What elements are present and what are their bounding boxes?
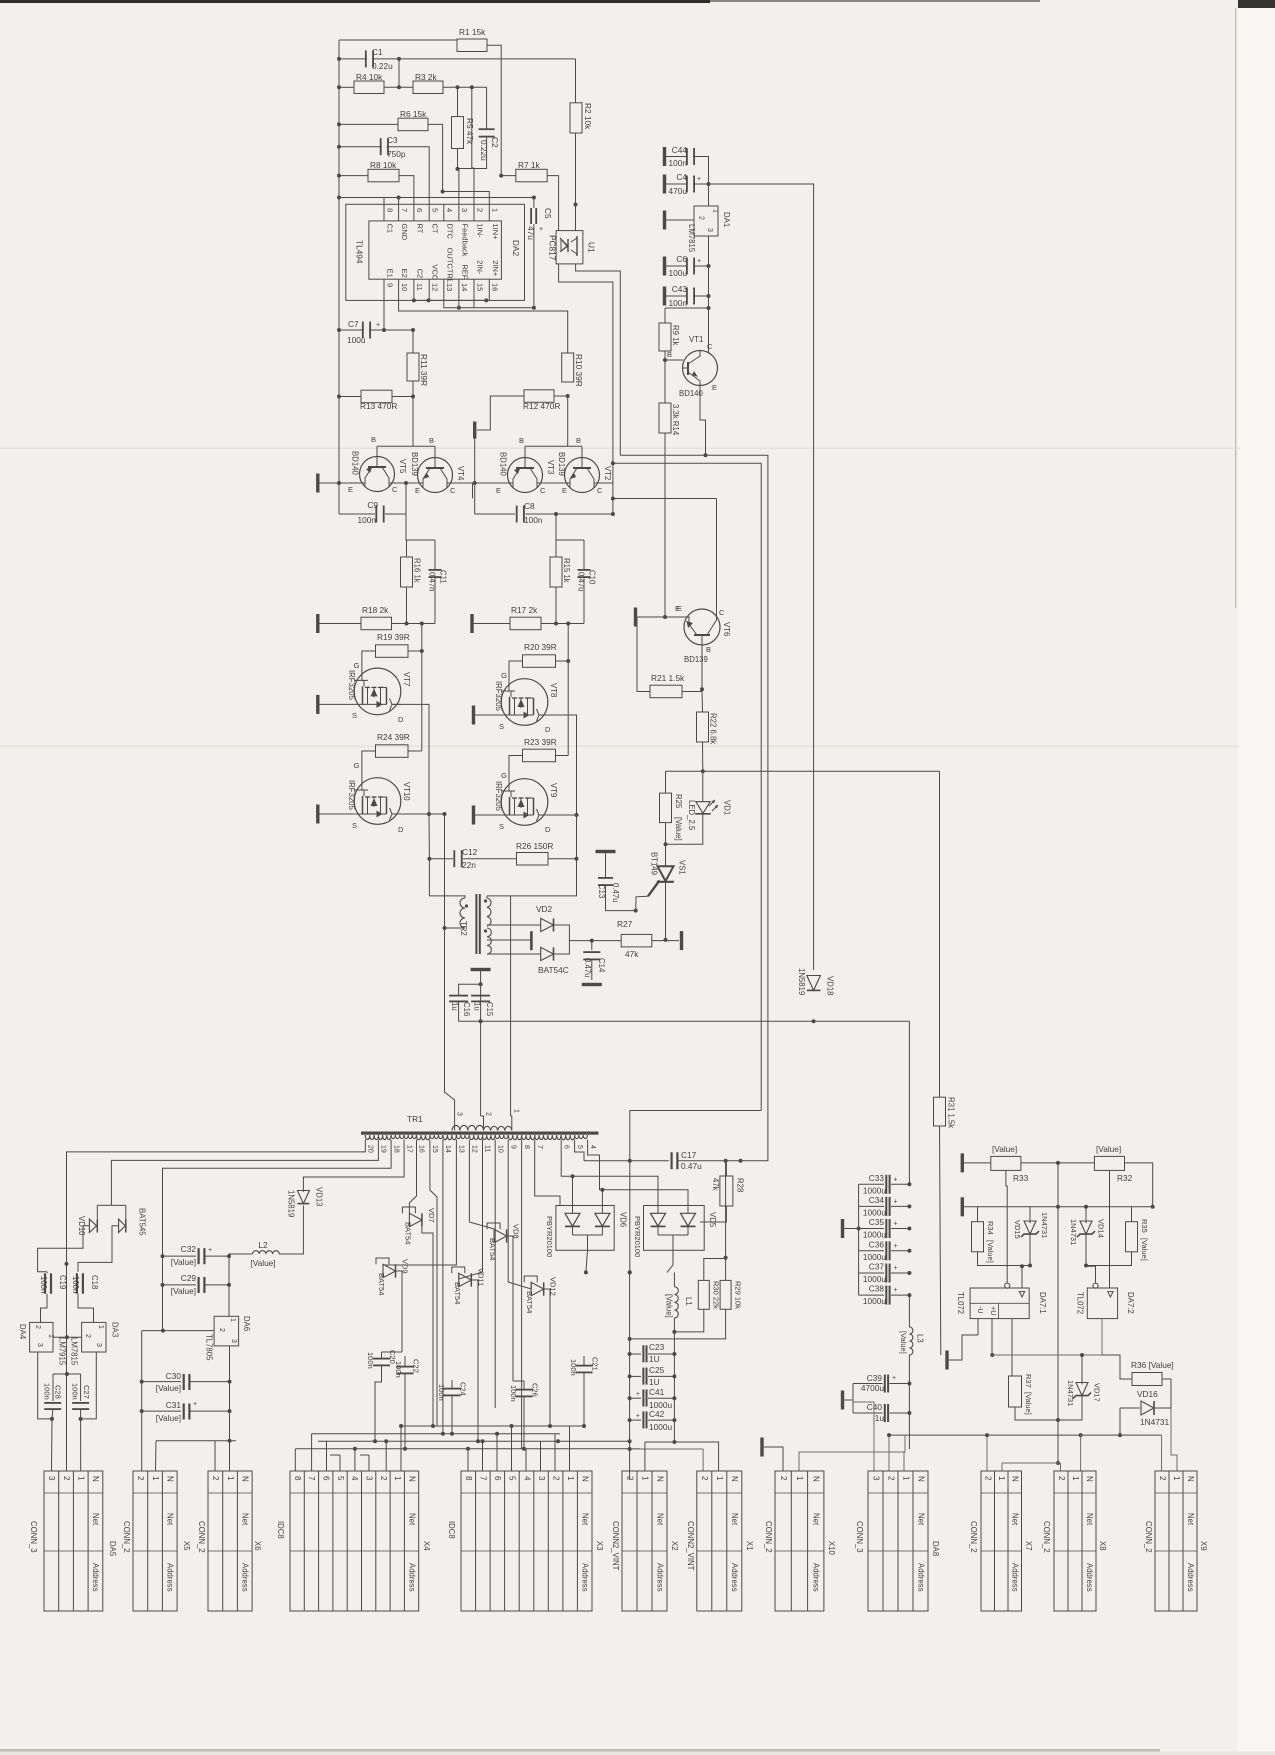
zener VD15 1N4731 (1029, 1207, 1031, 1223)
wire C18 bottom (78, 1294, 94, 1323)
wire DA6 left rail (141, 1331, 143, 1471)
node C32 right (227, 1254, 231, 1258)
capacitor C44 (666, 156, 687, 158)
transistor VT6 BD139 (684, 609, 720, 645)
ground row2 (961, 1197, 964, 1216)
svg-text:C33: C33 (869, 1173, 885, 1183)
svg-text:N: N (916, 1476, 925, 1482)
svg-text:C18: C18 (90, 1275, 99, 1289)
TR1 pin 7 (534, 1140, 536, 1144)
svg-text:Net: Net (730, 1513, 739, 1526)
wire pin13 drop (383, 1143, 456, 1271)
svg-text:VS1: VS1 (678, 860, 687, 875)
wire TR1 pin2 drop (480, 1021, 482, 1116)
wire X5-X6 link (156, 1440, 236, 1442)
svg-text:VD14: VD14 (1097, 1219, 1106, 1238)
resistor R2 (570, 103, 582, 133)
TR1 pin 5 (574, 1140, 576, 1144)
svg-text:B: B (667, 350, 672, 359)
wire R6 row (339, 123, 398, 125)
svg-text:Net: Net (655, 1513, 664, 1526)
svg-text:5: 5 (576, 1145, 583, 1149)
resistor R4 (354, 81, 384, 94)
svg-text:E: E (712, 383, 717, 392)
svg-text:C26: C26 (531, 1383, 540, 1397)
wire R31 bottom (940, 1126, 941, 1355)
svg-text:R29 10k: R29 10k (734, 1281, 743, 1309)
connector X5 CONN_2 (133, 1471, 177, 1611)
svg-text:VT4: VT4 (456, 466, 465, 481)
svg-text:1N4731: 1N4731 (1040, 1212, 1049, 1238)
pin 6 (RT) (413, 204, 415, 221)
svg-text:C5: C5 (543, 208, 553, 219)
resistor R8 (368, 169, 399, 182)
capacitor C32 (163, 1255, 197, 1257)
svg-text:R5 47k: R5 47k (465, 118, 475, 145)
svg-text:1: 1 (715, 1476, 724, 1481)
wire VD6 out (584, 1270, 588, 1274)
svg-text:2: 2 (779, 1476, 788, 1481)
wire R9 top (665, 307, 709, 309)
pin 12 (VCC) (428, 279, 430, 300)
svg-text:DA5: DA5 (108, 1541, 117, 1557)
svg-text:C27: C27 (82, 1385, 91, 1399)
svg-text:IRF3205: IRF3205 (347, 670, 356, 701)
capacitor C33 1000u (859, 1183, 884, 1185)
wire R18 right (392, 623, 436, 625)
svg-text:E: E (496, 486, 501, 495)
svg-text:X1: X1 (745, 1541, 754, 1551)
svg-text:C: C (719, 608, 725, 617)
wire R12 left (477, 396, 524, 430)
resistor R12 (524, 390, 554, 403)
capacitor C29 (163, 1284, 197, 1286)
svg-text:2: 2 (379, 1476, 388, 1481)
svg-text:1: 1 (47, 1334, 54, 1338)
wire base drop right pair (567, 396, 569, 446)
diode VD16 1N4731 (1120, 1407, 1140, 1409)
wire bank rail down (908, 1295, 910, 1327)
wire R27 right (652, 940, 679, 942)
wire L1 bottom (673, 1318, 675, 1354)
ground VT5 emitter (316, 474, 319, 493)
svg-text:C29: C29 (181, 1273, 197, 1283)
svg-text:E: E (415, 486, 420, 495)
wire R33 left (964, 1162, 991, 1164)
wire R20 left / VT8 gate (509, 661, 523, 691)
svg-text:8: 8 (385, 208, 394, 212)
pin 14 (REF) (458, 279, 460, 300)
svg-text:R26 150R: R26 150R (516, 841, 553, 851)
wire pin6 drop (561, 1143, 572, 1176)
svg-text:C: C (597, 486, 603, 495)
svg-text:R9 1k: R9 1k (671, 325, 680, 345)
wire R34 bottom (978, 1252, 1031, 1266)
svg-text:100n: 100n (394, 1361, 403, 1378)
wire pin5 drop (575, 1143, 584, 1161)
svg-text:Net: Net (407, 1513, 416, 1526)
capacitor C38 1000u (859, 1294, 884, 1296)
resistor R36 (1132, 1373, 1162, 1386)
wire VT1 emitter down (700, 385, 706, 455)
node R1-R7 (499, 174, 503, 178)
svg-text:C42: C42 (649, 1409, 665, 1419)
op-amp U? outer box DA2 (346, 204, 525, 300)
svg-text:Net: Net (916, 1513, 925, 1526)
svg-text:0.47u: 0.47u (611, 883, 620, 903)
resistor R34 (972, 1222, 984, 1252)
wire VT10 drain (392, 813, 445, 815)
svg-text:VT6: VT6 (722, 622, 731, 636)
wire X2 pins (629, 1470, 631, 1472)
wire R35 top (1131, 1207, 1133, 1222)
wire pin10 drop (494, 1143, 496, 1408)
svg-text:N: N (1085, 1476, 1094, 1482)
wire R11 top (412, 330, 414, 353)
svg-text:10: 10 (496, 1145, 503, 1153)
svg-text:Net: Net (91, 1513, 100, 1526)
svg-text:C14: C14 (597, 958, 606, 973)
wire bus B down to rect (630, 1111, 761, 1273)
wire secondary common bus (511, 1020, 910, 1022)
node R25-LED (664, 842, 668, 846)
svg-text:1: 1 (1172, 1476, 1181, 1481)
resistor R9 (659, 323, 671, 351)
svg-text:100u: 100u (669, 268, 688, 278)
svg-text:CONN_2: CONN_2 (764, 1521, 773, 1553)
wire R18 left (320, 623, 362, 625)
svg-text:R10 39R: R10 39R (574, 354, 584, 387)
wire R14 top (664, 360, 666, 403)
node C39 (907, 1382, 911, 1386)
node C7 right (382, 328, 386, 332)
capacitor C40 (853, 1412, 883, 1414)
connector X8 CONN_2 (1054, 1471, 1096, 1611)
svg-text:C32: C32 (181, 1244, 197, 1254)
node VD18 bottom (812, 1019, 816, 1023)
wire C12-R26 (463, 858, 517, 860)
bottom right bus (889, 1434, 1161, 1436)
TR1 pin 15 (429, 1140, 431, 1144)
resistor R5 (452, 117, 464, 149)
svg-text:6: 6 (493, 1476, 502, 1481)
wire DA6 pin2 row (142, 1330, 214, 1332)
wire R16 bottom (406, 587, 408, 624)
svg-text:R32: R32 (1117, 1173, 1133, 1183)
resistor R32 (1094, 1156, 1124, 1170)
wire VT7 source (320, 703, 355, 705)
wire R2 bottom to U1 (575, 133, 577, 231)
capacitor C19 (46, 1272, 48, 1274)
svg-text:N: N (166, 1476, 175, 1482)
svg-text:R8 10k: R8 10k (370, 160, 397, 170)
svg-text:IRF3205: IRF3205 (494, 781, 503, 812)
ground DA1 pin2 (663, 211, 666, 230)
wire R11 bottom (412, 381, 414, 397)
svg-text:1: 1 (97, 1325, 104, 1329)
svg-text:IRF3205: IRF3205 (494, 681, 503, 712)
ground C15 top (471, 968, 491, 971)
wire R34 top (977, 1207, 979, 1222)
wire VD9 out (396, 1271, 403, 1352)
wire TR2 right drop (487, 859, 577, 896)
svg-text:N: N (655, 1476, 664, 1482)
wire VD11 out (471, 1280, 478, 1441)
svg-text:+: + (697, 258, 701, 265)
svg-text:1: 1 (795, 1476, 804, 1481)
svg-text:C4: C4 (676, 172, 687, 182)
wire GND row to U1 (339, 197, 534, 199)
svg-text:RT: RT (415, 224, 424, 234)
TR1 pin 1 (511, 1124, 513, 1131)
wire DA4 pin3 out (38, 1352, 52, 1419)
svg-text:[Value]: [Value] (250, 1258, 275, 1268)
wire C3 row (339, 146, 382, 148)
wire R2 drop (575, 59, 577, 103)
wire X9 feeds (1161, 1435, 1163, 1471)
wire R30 bottom (674, 1309, 703, 1332)
svg-text:2: 2 (211, 1476, 220, 1481)
svg-text:Address: Address (166, 1563, 175, 1592)
pin 11 (C2) (413, 279, 415, 300)
wire R28 bottom (700, 1206, 726, 1222)
capacitor C17 (584, 1160, 669, 1162)
wire R33 right (1021, 1162, 1095, 1164)
svg-text:2: 2 (62, 1476, 71, 1481)
TR2 secondary winding bottom (487, 928, 491, 954)
svg-text:Address: Address (1085, 1563, 1094, 1592)
svg-text:VT8: VT8 (549, 683, 558, 697)
svg-text:Net: Net (1186, 1513, 1195, 1526)
wire to pin1 (443, 192, 490, 205)
op-amp DA7:2 TL072 (1087, 1288, 1117, 1319)
svg-text:LED_2.5: LED_2.5 (687, 800, 696, 831)
thyristor VS1 BT149 (658, 866, 674, 881)
svg-text:D: D (398, 715, 404, 724)
svg-text:1: 1 (901, 1476, 910, 1481)
mosfet VT8 IRF3205 (501, 679, 548, 726)
node VT2 C rail (611, 497, 615, 501)
svg-text:X3: X3 (595, 1541, 604, 1551)
bus 2 (312, 1433, 560, 1435)
wire L2 left (229, 1254, 253, 1256)
svg-text:B: B (706, 645, 711, 654)
svg-text:1: 1 (151, 1476, 160, 1481)
capacitor C26 (516, 1389, 533, 1391)
svg-text:10: 10 (400, 283, 409, 291)
svg-text:12: 12 (431, 283, 440, 291)
resistor R16 (401, 557, 413, 587)
wire R6 right down (428, 124, 443, 191)
svg-text:1000u: 1000u (863, 1207, 886, 1217)
wire pin7 top (398, 198, 400, 205)
resistor R24 (376, 745, 409, 758)
TR1 pin 11 (482, 1140, 484, 1144)
svg-text:3: 3 (230, 1339, 237, 1343)
svg-text:C16: C16 (462, 1002, 471, 1016)
resistor R1 (457, 39, 487, 52)
connector X4 IDC8 (290, 1471, 419, 1611)
svg-text:1IN+: 1IN+ (491, 224, 500, 241)
TR1 primary winding (452, 1125, 484, 1130)
svg-text:R3 2k: R3 2k (415, 72, 438, 82)
svg-text:C23: C23 (649, 1342, 665, 1352)
wire DA6 pin3 down (229, 1346, 231, 1471)
svg-text:Net: Net (581, 1513, 590, 1526)
svg-text:REF: REF (460, 264, 469, 279)
svg-text:CONN_2: CONN_2 (1144, 1521, 1153, 1553)
svg-text:4: 4 (522, 1476, 531, 1481)
svg-text:Address: Address (241, 1563, 250, 1592)
wire pin11 drop (459, 1143, 483, 1279)
wire pin14 drop (442, 1143, 444, 1434)
wire C9 row (339, 513, 375, 515)
node C27-DA3out (79, 1417, 83, 1421)
svg-text:[Value]: [Value] (992, 1144, 1017, 1154)
capacitor C10 (583, 540, 585, 570)
capacitor C34 1000u (859, 1205, 884, 1207)
svg-text:C11: C11 (439, 570, 448, 584)
wire R33 to DA7:1 -in (1006, 1171, 1007, 1284)
svg-text:X6: X6 (253, 1541, 262, 1551)
wire C12 row left (445, 814, 455, 1124)
ground C4 (663, 175, 666, 194)
node R5-C2 (456, 167, 460, 171)
capacitor C13 (596, 850, 616, 853)
svg-text:E1: E1 (386, 269, 395, 278)
capacitor C28 (52, 1374, 54, 1401)
wire R5 bottom (457, 149, 459, 169)
wire VT2 collector (594, 483, 613, 488)
svg-text:1000u: 1000u (863, 1185, 886, 1195)
wire VD10 out left (38, 1226, 90, 1272)
ground VT6 emitter (634, 608, 637, 627)
svg-text:E: E (562, 486, 567, 495)
TR1 core bar (361, 1132, 599, 1135)
wire left cap rail (629, 1272, 631, 1480)
wire L1 top (673, 1272, 675, 1286)
rectifier VD5 PBYR20100 (644, 1206, 705, 1251)
wire VT5 emitter (320, 483, 366, 487)
node C15 bottom (479, 1019, 483, 1023)
svg-text:N: N (812, 1476, 821, 1482)
capacitor C41 (630, 1397, 641, 1399)
resistor R18 (361, 617, 392, 630)
svg-text:X5: X5 (182, 1541, 191, 1551)
svg-text:BD140: BD140 (351, 451, 360, 476)
wire R20 right (556, 660, 569, 662)
svg-text:R30 22k: R30 22k (712, 1281, 721, 1309)
svg-text:VT1: VT1 (689, 335, 703, 344)
node R15 (554, 622, 558, 626)
wire R3 right (443, 86, 487, 88)
wire VD8 out (507, 1236, 513, 1381)
wire R8 row (339, 175, 368, 177)
svg-text:VT7: VT7 (402, 672, 411, 686)
svg-text:R4 10k: R4 10k (356, 72, 383, 82)
wire out row (666, 770, 940, 772)
wire C3 right down (387, 147, 430, 205)
wire VD10 top (97, 1204, 111, 1206)
wire C16 bottom (458, 1001, 460, 1022)
resistor R23 (523, 749, 556, 762)
svg-text:N: N (407, 1476, 416, 1482)
svg-text:2: 2 (485, 1112, 492, 1116)
svg-text:VD2: VD2 (536, 904, 553, 914)
wire R17 left (474, 623, 510, 625)
wire X10 pin2 (764, 1447, 783, 1471)
svg-text:47k: 47k (625, 949, 639, 959)
diode VD11 BAT54 (459, 1273, 472, 1286)
svg-text:C1: C1 (372, 47, 383, 57)
wire R19 left / VT7 gate (362, 651, 376, 680)
node gate (634, 909, 638, 913)
wire C30 row (142, 1381, 181, 1383)
svg-text:+U: +U (989, 1306, 998, 1315)
wire X10 pin1 (799, 1435, 905, 1471)
svg-text:100u: 100u (347, 335, 366, 345)
svg-text:0.22u: 0.22u (479, 140, 489, 161)
svg-text:1000u: 1000u (649, 1422, 672, 1432)
transistor VT3 BD140 (508, 458, 543, 493)
svg-text:C9: C9 (367, 500, 378, 510)
inductor L3 (909, 1327, 913, 1355)
svg-text:R16 1k: R16 1k (413, 558, 422, 583)
wire bus corner down (908, 1021, 910, 1183)
svg-text:C3: C3 (387, 135, 398, 145)
svg-text:2: 2 (475, 208, 484, 212)
svg-text:16: 16 (491, 283, 500, 291)
capacitor C1 (365, 50, 367, 67)
svg-text:[Value]: [Value] (171, 1286, 196, 1296)
svg-text:2: 2 (551, 1476, 560, 1481)
svg-text:R13 470R: R13 470R (360, 401, 397, 411)
wire pin20 left (67, 1143, 366, 1323)
svg-text:100n: 100n (358, 515, 377, 525)
svg-text:CONN2_VINT: CONN2_VINT (611, 1521, 620, 1571)
svg-text:R33: R33 (1013, 1173, 1029, 1183)
wire C8 right (526, 513, 613, 515)
svg-text:X9: X9 (1199, 1541, 1208, 1551)
svg-text:2: 2 (1158, 1476, 1167, 1481)
TR1 pin 8 (521, 1140, 523, 1144)
svg-text:2: 2 (886, 1476, 895, 1481)
node C2 top (470, 85, 474, 89)
svg-text:7: 7 (479, 1476, 488, 1481)
capacitor C43 (666, 295, 687, 297)
wire C8 row (475, 513, 515, 515)
TR1 pin 2 (483, 1124, 485, 1131)
TR1 pin 10 (494, 1140, 496, 1144)
capacitor C39 (853, 1383, 883, 1385)
svg-text:C8: C8 (524, 501, 535, 511)
svg-text:Address: Address (916, 1563, 925, 1592)
svg-text:+: + (636, 1391, 640, 1398)
wire pin9 drop (508, 1143, 531, 1289)
svg-text:R17 2k: R17 2k (511, 605, 538, 615)
transistor VT1 BD140 (683, 351, 718, 386)
resistor R14 (659, 403, 671, 433)
svg-text:4: 4 (350, 1476, 359, 1481)
connector DA5 CONN_3 (44, 1471, 103, 1611)
wire R7 right to U1 (547, 176, 558, 231)
wire R15 bottom (555, 587, 557, 624)
svg-text:15: 15 (475, 283, 484, 291)
svg-text:VD5: VD5 (708, 1212, 717, 1228)
svg-text:TL072: TL072 (1076, 1292, 1085, 1314)
X4 pin stubs (294, 1449, 296, 1471)
svg-text:DA1: DA1 (722, 212, 731, 227)
